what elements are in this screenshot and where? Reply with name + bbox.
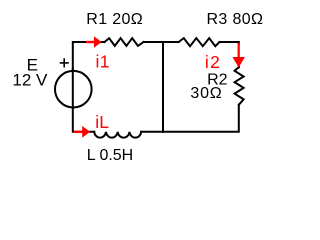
resistor R2 <box>235 67 244 105</box>
svg-text:R3 80Ω: R3 80Ω <box>207 11 264 28</box>
inductor L <box>94 132 141 138</box>
wire top-left segment <box>73 42 105 69</box>
wire bottom-left segment <box>73 108 94 132</box>
current arrow i1 <box>86 36 102 48</box>
resistor R3 <box>179 38 220 46</box>
wire top-right corner <box>220 42 239 44</box>
wire bottom-middle segment <box>141 131 163 133</box>
current arrow iL <box>74 126 90 138</box>
wire middle vertical <box>162 42 164 132</box>
wire through source <box>72 69 74 108</box>
svg-text:i1: i1 <box>96 52 110 72</box>
svg-text:30Ω: 30Ω <box>190 85 222 102</box>
svg-text:i2: i2 <box>205 52 221 72</box>
wire right below arrow <box>238 66 240 67</box>
wire right-bottom segment <box>163 105 239 132</box>
wire top-middle segment <box>144 41 179 43</box>
svg-text:12 V: 12 V <box>12 71 48 90</box>
current arrow i2 <box>233 43 245 68</box>
resistor R1 <box>105 38 144 46</box>
voltage source E circle <box>55 71 92 108</box>
svg-text:L 0.5H: L 0.5H <box>87 147 134 164</box>
svg-text:iL: iL <box>95 112 109 132</box>
svg-text:R1 20Ω: R1 20Ω <box>86 11 143 28</box>
plus sign of source <box>60 58 69 67</box>
